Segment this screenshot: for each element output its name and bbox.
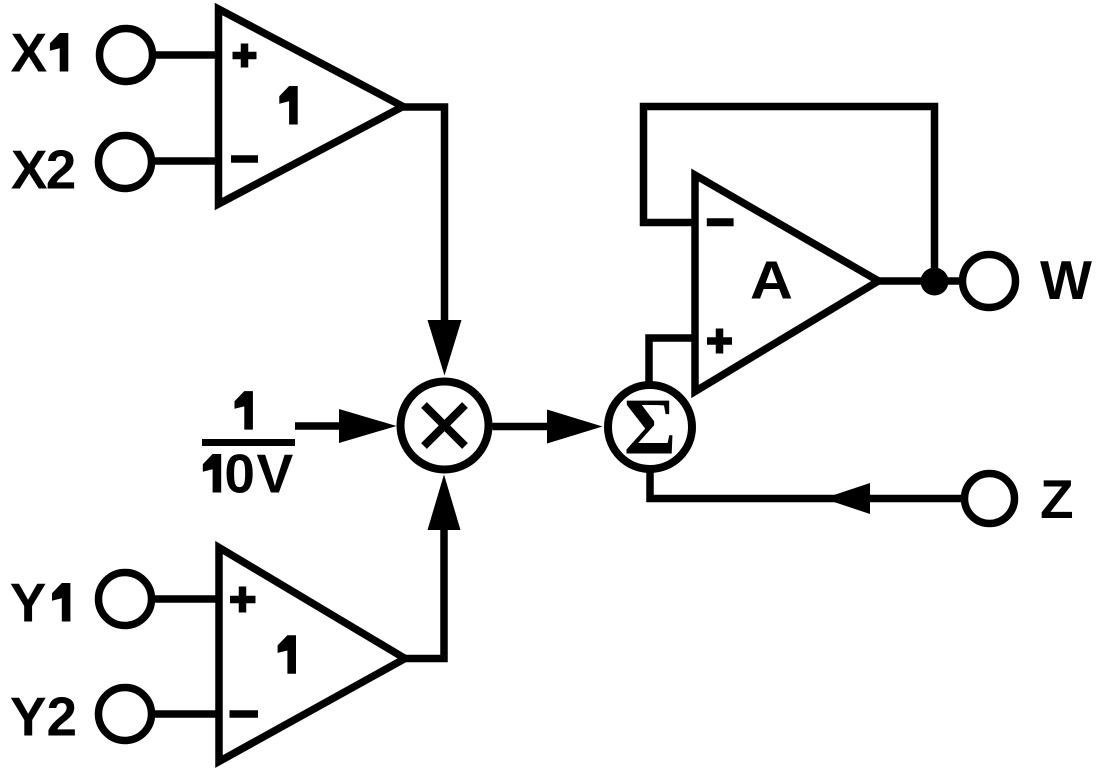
node X2 terminal [99, 136, 152, 189]
op-amp plus input sign [707, 329, 732, 354]
node X2 label [11, 139, 76, 201]
node Y1 terminal [99, 573, 152, 626]
svg-text:2: 2 [47, 686, 78, 748]
op-amp minus input sign [707, 218, 734, 226]
wire op-amp output to W [879, 277, 962, 285]
wire multiplier to summer [493, 423, 552, 431]
arrowhead down into multiplier [428, 320, 462, 376]
node X1 label [11, 22, 69, 84]
wire X1 to buffer [155, 51, 222, 59]
arrowhead right into multiplier [339, 409, 397, 443]
svg-text:Y: Y [10, 572, 47, 634]
buffer Y gain label 1 [278, 635, 296, 674]
node Y1 label [10, 572, 71, 634]
svg-text:0V: 0V [224, 443, 294, 505]
scale factor denominator 10V [203, 443, 295, 505]
wire Y1 to buffer [153, 595, 222, 603]
svg-text:Y: Y [10, 686, 47, 748]
svg-text:Z: Z [1040, 468, 1074, 530]
arrowhead left on Z wire [824, 483, 871, 514]
scale factor numerator 1 [235, 391, 253, 430]
wire Y2 to buffer [153, 710, 222, 718]
node Z terminal [965, 474, 1015, 524]
node X1 terminal [100, 29, 153, 82]
buffer X gain label 1 [279, 86, 297, 125]
fraction bar [202, 439, 295, 446]
multiplier X symbol [424, 405, 465, 446]
node Y2 label [10, 686, 77, 748]
svg-text:W: W [1040, 249, 1092, 311]
op-amp A [695, 175, 879, 392]
svg-text:Σ: Σ [624, 384, 676, 472]
buffer X plus input sign [233, 44, 257, 68]
buffer X minus input sign [231, 155, 258, 163]
summer circle [608, 385, 692, 469]
arrowhead up into multiplier [428, 475, 461, 531]
svg-text:2: 2 [46, 139, 77, 201]
wire buffer X output to multiplier [403, 107, 445, 324]
junction node dot [921, 268, 949, 296]
svg-text:X: X [11, 139, 48, 201]
wire feedback loop [644, 107, 935, 282]
buffer amp 1 (Y input) [219, 548, 405, 762]
wire buffer Y output to multiplier [405, 528, 444, 659]
buffer Y plus input sign [230, 587, 256, 613]
buffer Y minus input sign [230, 710, 259, 718]
wire 1/10V to multiplier [295, 422, 344, 430]
svg-text:A: A [750, 251, 793, 311]
node Y2 terminal [99, 688, 152, 741]
buffer amp 1 (X input) [219, 9, 404, 204]
wire Z to summer [650, 471, 961, 499]
wire X2 to buffer [153, 157, 222, 165]
multiplier circle [401, 382, 489, 470]
node W terminal [963, 255, 1016, 308]
wire summer to op-amp plus input [649, 338, 695, 383]
arrowhead right into summer [547, 410, 603, 444]
svg-text:X: X [11, 22, 48, 84]
